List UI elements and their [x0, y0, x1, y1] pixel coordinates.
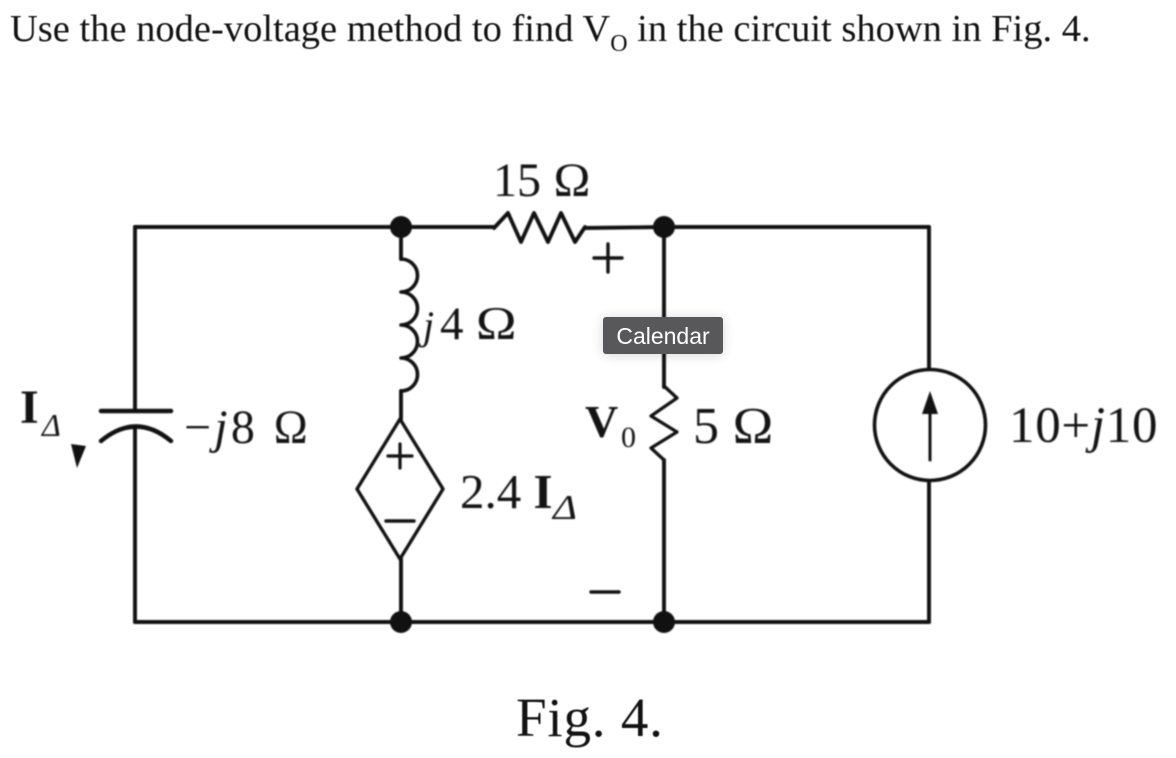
wire top-left: left corner to node A — [135, 225, 401, 229]
current source I1 arrowhead — [922, 391, 938, 414]
wire inductor branch upper — [399, 227, 403, 259]
node D junction dot (bottom, 5-ohm branch) — [653, 611, 675, 633]
calendar tooltip overlay — [603, 317, 723, 354]
svg-text:j4 Ω: j4 Ω — [418, 298, 517, 350]
current source I1 circle — [875, 370, 986, 481]
wire left upper: corner down to capacitor — [133, 227, 137, 411]
node B junction dot (top, 5-ohm branch) — [653, 216, 675, 238]
dependent voltage source U1 diamond 2.4 I-delta — [357, 419, 443, 559]
capacitor C1 top plate — [101, 409, 171, 414]
svg-text:V: V — [585, 396, 618, 447]
inductor L1 j4-ohm coil — [401, 259, 418, 391]
caption Fig. 4. — [516, 686, 664, 749]
wire top: resistor to node B — [585, 227, 664, 228]
wire top: node A to 15-ohm resistor — [401, 225, 494, 229]
current arrow head for I-delta — [71, 444, 86, 468]
node C junction dot (bottom, inductor branch) — [390, 611, 412, 633]
wire right upper: corner to current source — [927, 227, 931, 370]
svg-text:Δ: Δ — [40, 407, 61, 443]
svg-text:0: 0 — [621, 421, 636, 454]
wire dependent source to bottom node — [399, 559, 403, 622]
capacitor C1 curved bottom plate — [101, 427, 171, 442]
svg-text:I: I — [20, 381, 39, 434]
svg-text:2.4 I: 2.4 I — [460, 464, 553, 519]
wire 5-ohm branch lower — [662, 460, 666, 622]
resistor R1 15-ohm zigzag — [494, 213, 585, 242]
polarity plus for Vo — [594, 244, 622, 272]
node A junction dot (top, inductor branch) — [390, 216, 412, 238]
svg-text:−j8 Ω: −j8 Ω — [184, 401, 311, 454]
svg-text:5 Ω: 5 Ω — [693, 398, 774, 455]
plus sign inside source U1 — [388, 444, 412, 468]
wire right lower: current source to corner — [927, 480, 931, 622]
problem statement text — [10, 7, 1091, 51]
svg-text:10+j10: 10+j10 — [1009, 398, 1158, 454]
polarity minus for Vo — [591, 590, 619, 593]
resistor R2 5-ohm zigzag — [651, 386, 677, 460]
minus sign inside source U1 — [386, 519, 414, 522]
wire inductor to dependent source — [399, 391, 403, 419]
wire left lower: capacitor to bottom corner — [133, 427, 137, 622]
wire bottom rail — [135, 620, 929, 624]
wire top-right: node B to right corner — [664, 225, 929, 229]
wire 5-ohm branch upper — [662, 227, 666, 387]
current source I1 arrow shaft — [929, 408, 932, 460]
svg-text:Δ: Δ — [551, 488, 577, 527]
svg-text:15 Ω: 15 Ω — [493, 154, 591, 207]
